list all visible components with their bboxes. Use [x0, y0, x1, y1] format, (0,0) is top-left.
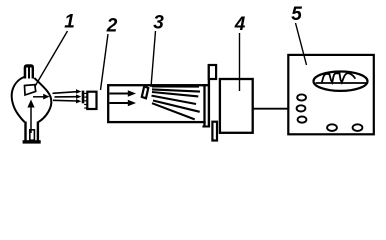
- lamp 1: stem plate: [25, 85, 36, 95]
- bar before filter 2: [82, 91, 85, 104]
- bottom tab: [212, 122, 217, 141]
- svg-text:2: 2: [106, 16, 118, 37]
- knob oval 1: [327, 124, 337, 131]
- fan ray 1: [152, 85, 199, 87]
- fan ray 4: [152, 96, 197, 104]
- lamp 1: base: [23, 122, 41, 144]
- light ray a: [53, 89, 82, 94]
- terminal circle 1: [297, 94, 306, 100]
- svg-text:4: 4: [234, 14, 246, 35]
- flange line: [202, 64, 210, 127]
- detector box 4: [220, 79, 253, 133]
- leader line 4: [239, 33, 241, 91]
- filter 2 ticks: [84, 93, 86, 108]
- fan ray 5: [153, 101, 200, 112]
- meter dial scallops: [322, 73, 355, 82]
- fan ray 3: [152, 92, 198, 96]
- leader line 1: [34, 31, 68, 88]
- light ray c: [53, 99, 81, 103]
- tube arrow b: [110, 100, 137, 106]
- lamp 1: bulb outline: [12, 77, 52, 122]
- svg-text:1: 1: [64, 12, 75, 33]
- prism 3: [142, 86, 149, 98]
- knob oval 2: [353, 124, 363, 131]
- terminal circle 2: [297, 105, 306, 111]
- fan ray 6: [152, 103, 195, 119]
- meter dial ellipse: [314, 72, 368, 91]
- svg-text:5: 5: [291, 4, 302, 25]
- lamp 1: right arrow: [33, 94, 50, 100]
- terminal circle 3: [298, 117, 307, 123]
- wire 4 to 5: [253, 108, 289, 110]
- tube body: [108, 85, 204, 122]
- meter dial chord: [316, 82, 367, 84]
- fan ray 2: [152, 89, 200, 91]
- svg-text:3: 3: [153, 13, 164, 34]
- lamp 1: cap: [24, 64, 34, 78]
- leader line 3: [151, 31, 156, 87]
- leader line 5: [296, 23, 307, 65]
- leader line 2: [101, 34, 109, 90]
- top tab: [209, 65, 216, 79]
- lamp 1: up arrow: [27, 100, 34, 134]
- light ray b: [55, 94, 82, 99]
- filter 2: [87, 92, 96, 109]
- tube arrow a: [110, 90, 137, 96]
- meter box 5: [288, 55, 374, 134]
